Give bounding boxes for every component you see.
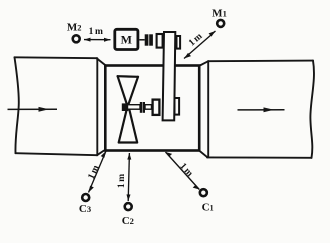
svg-text:1 m: 1 m (117, 174, 127, 188)
mic point M1 (217, 20, 224, 27)
left duct (15, 57, 106, 155)
shaft coupling (fan side) (140, 102, 142, 113)
lower pulley left cheek (153, 100, 160, 115)
lower pulley right cheek (175, 98, 180, 115)
dimension arrow C3 to housing, 1 m (89, 151, 107, 193)
dimension arrow C1 to housing, 1 m (166, 152, 200, 190)
svg-text:C1: C1 (202, 202, 214, 214)
fan upper blade (118, 76, 138, 110)
svg-text:C2: C2 (122, 215, 134, 227)
belt column (163, 32, 176, 120)
dimension arrow M2 to motor, 1 m (84, 38, 111, 42)
svg-text:1 m: 1 m (89, 27, 103, 37)
flow arrow right (238, 107, 285, 112)
mic point C3 (82, 194, 89, 201)
fan housing box (105, 66, 199, 151)
dimension arrow C2 to housing, 1 m (127, 153, 132, 201)
svg-text:M1: M1 (212, 8, 227, 20)
flow arrow left (8, 107, 58, 112)
svg-text:M: M (121, 33, 132, 47)
motor M (115, 29, 138, 49)
mic point C1 (200, 189, 207, 196)
motor coupling (145, 34, 149, 45)
fan shaft (128, 105, 141, 110)
upper pulley left cheek (157, 34, 163, 48)
mic point M2 (73, 35, 80, 42)
right duct (199, 61, 314, 158)
dimension arrow M1 to duct, 1 m (184, 31, 216, 59)
fan hub (122, 103, 129, 111)
svg-text:C3: C3 (79, 203, 91, 215)
fan lower blade (119, 104, 138, 143)
mic point C2 (125, 203, 132, 210)
fan shaft segment 2 (145, 105, 152, 110)
upper pulley right cheek (177, 36, 181, 49)
motor shaft (139, 39, 144, 41)
svg-text:M2: M2 (67, 21, 82, 33)
